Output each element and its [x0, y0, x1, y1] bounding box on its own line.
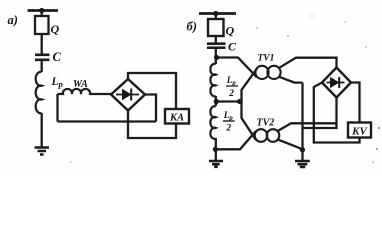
junction dot bottom: [213, 147, 218, 152]
wire: [41, 113, 43, 148]
wire TV2 upper right: [278, 123, 337, 131]
junction dot mid left: [214, 99, 219, 104]
junction dot: [39, 8, 44, 13]
svg-text:C: C: [228, 40, 237, 54]
wire TV2 lower right: [278, 140, 303, 150]
svg-text:2: 2: [225, 124, 231, 134]
diode b: [327, 82, 345, 84]
reactor Lp/2 coil 1: [210, 64, 215, 97]
svg-text:TV1: TV1: [258, 53, 275, 63]
ground b1: [209, 161, 223, 167]
ground b2: [295, 161, 310, 167]
wire branch to TV1: [217, 58, 257, 78]
junction dot common: [300, 147, 305, 152]
diode a: [116, 94, 139, 96]
wire to TV2 upper terminal: [242, 102, 257, 141]
rectifier bridge b: [322, 68, 351, 98]
wire bridge bottom vertex left: [303, 98, 337, 129]
relay KA: [165, 109, 189, 124]
reactor Lp/2 coil 2: [210, 106, 215, 139]
svg-text:б): б): [187, 20, 197, 34]
svg-text:Q: Q: [226, 24, 235, 38]
wire to TV1 lower terminal: [242, 69, 257, 102]
wire: [301, 150, 303, 161]
svg-text:Lp: Lp: [226, 75, 237, 87]
svg-text:Lp: Lp: [51, 76, 63, 89]
winding WA coil: [58, 89, 112, 94]
wire: [215, 14, 217, 20]
reactor Lp: [36, 72, 42, 113]
wire bridge left vertex down: [314, 83, 360, 143]
svg-text:Lp: Lp: [223, 110, 234, 122]
svg-text:Q: Q: [51, 22, 60, 36]
capacitor C b: [207, 44, 226, 48]
svg-text:2: 2: [228, 89, 234, 99]
wire bottom of WA loop: [58, 120, 157, 122]
junction dot branch: [214, 55, 219, 60]
wire mid link: [216, 100, 239, 102]
wire TV1 upper right to bridge top: [279, 58, 336, 68]
wire: [215, 36, 217, 43]
svg-text:KV: KV: [351, 125, 368, 137]
rectifier bridge a: [111, 79, 145, 111]
svg-text:КА: КА: [169, 113, 184, 124]
capacitor C: [35, 55, 50, 60]
junction dot mid right: [237, 99, 242, 104]
wire bottom to TV2: [215, 131, 256, 149]
wire bridge right vertex to KV: [351, 83, 360, 123]
power bus b: [199, 12, 236, 15]
junction dot: [213, 11, 218, 16]
wire vertical common: [301, 83, 303, 151]
svg-text:а): а): [8, 13, 18, 27]
wire TV1 lower right: [279, 77, 302, 83]
relay KV: [348, 123, 371, 138]
breaker Q b: [208, 19, 224, 36]
wire to bridge right vertex: [145, 95, 156, 122]
wire bridge bottom to KA: [128, 111, 176, 139]
wire bridge top to KA: [128, 73, 176, 109]
svg-text:C: C: [53, 50, 62, 64]
winding WA loop left edge: [56, 94, 58, 122]
breaker Q: [35, 16, 49, 34]
wire: [41, 11, 43, 17]
wire: [41, 61, 43, 72]
wire: [41, 34, 43, 54]
wire: [215, 96, 217, 106]
power bus: [28, 9, 59, 12]
ground: [35, 148, 50, 155]
svg-text:TV2: TV2: [257, 118, 275, 129]
scan speckles: [70, 15, 380, 162]
wire: [215, 49, 217, 64]
wire: [215, 138, 217, 161]
